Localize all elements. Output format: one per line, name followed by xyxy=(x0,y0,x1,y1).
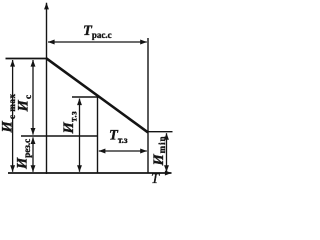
x-axis (time axis T) xyxy=(8,172,172,174)
svg-text:Ис: Ис xyxy=(16,94,33,113)
level line I rez.c (horizontal at y=136) xyxy=(21,135,98,137)
y-axis (intensity axis) xyxy=(46,3,48,174)
dimension arrow T rac.c xyxy=(48,41,147,43)
svg-text:Tрас.с: Tрас.с xyxy=(83,23,112,40)
dimension arrow Ic xyxy=(32,60,34,135)
dimension arrow I min xyxy=(166,133,168,172)
vertical line below diagonal at T t.z start (x=97.5) xyxy=(97,97,99,173)
svg-text:T: T xyxy=(151,171,160,184)
level line Ic max (top horizontal) xyxy=(6,58,47,60)
svg-text:Tт.з: Tт.з xyxy=(109,128,128,145)
level line I min (horizontal at y=131.7) xyxy=(148,131,173,133)
dimension arrow I rez.c xyxy=(32,137,34,171)
signal decay diagonal xyxy=(46,58,148,132)
dimension arrow Ic max xyxy=(12,60,14,172)
svg-text:Ит.з: Ит.з xyxy=(61,111,78,135)
vertical line at end of T rac.c (x=148) xyxy=(147,38,149,173)
dimension arrow I t.z xyxy=(79,99,81,172)
level line I t.z (short horizontal at y=97) xyxy=(72,96,100,98)
dimension arrow T t.z xyxy=(99,150,147,152)
svg-text:Иmin: Иmin xyxy=(151,136,167,167)
svg-text:Ис max: Ис max xyxy=(0,93,17,133)
svg-text:Ирез.с: Ирез.с xyxy=(15,139,32,170)
